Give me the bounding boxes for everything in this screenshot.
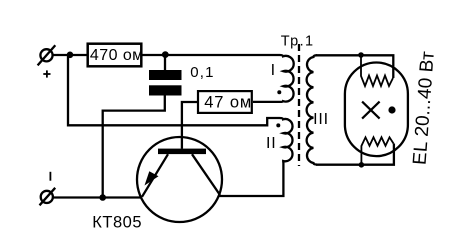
svg-text:КТ805: КТ805 [92, 214, 142, 232]
svg-text:Тр.1: Тр.1 [281, 33, 315, 49]
svg-text:III: III [313, 111, 329, 128]
svg-text:II: II [266, 135, 277, 152]
svg-text:470 ом: 470 ом [90, 47, 144, 64]
svg-text:0,1: 0,1 [190, 64, 214, 81]
svg-text:I: I [271, 62, 275, 79]
svg-text:47 ом: 47 ом [204, 94, 252, 112]
